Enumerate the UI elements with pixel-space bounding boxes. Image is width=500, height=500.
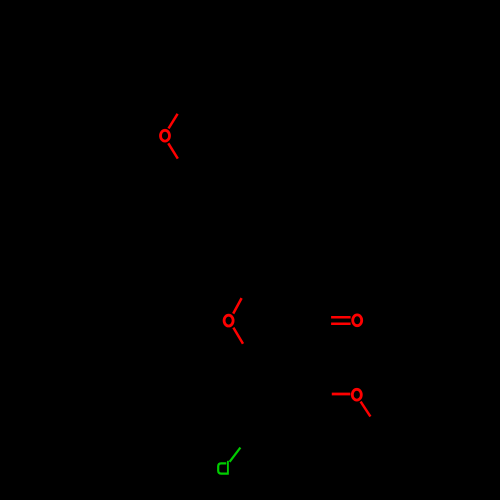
- atom O1 (aryl methoxy oxygen, upper left): [161, 130, 170, 141]
- wire bond O1-CH3 (red half, up-right): [169, 114, 178, 129]
- wire bond O2-CH2 (red half, up-right): [233, 298, 241, 314]
- atom O2 (ether oxygen, center): [224, 315, 233, 326]
- wire bond O2-C(aryl) (red half, down-right): [233, 328, 243, 344]
- wire bond O1-C(aryl) (red half, down-right): [168, 143, 178, 158]
- wire bond Cl-C(aryl) (green half, up-right): [230, 448, 241, 462]
- wire bond C(aryl)-O4 (red half, horizontal left): [332, 393, 351, 396]
- wire bond C=O3 ketone double bond (red half, horizontal pair): [331, 317, 351, 324]
- atom O4 (ethoxy oxygen, lower right): [352, 389, 361, 400]
- wire bond O4-CH2 (red half, down-right): [361, 402, 371, 417]
- atom Cl : letter l: [227, 461, 229, 475]
- atom O3 (ketone oxygen): [353, 315, 362, 326]
- atom Cl (chlorine label, bottom) : letter C: [218, 463, 227, 473]
